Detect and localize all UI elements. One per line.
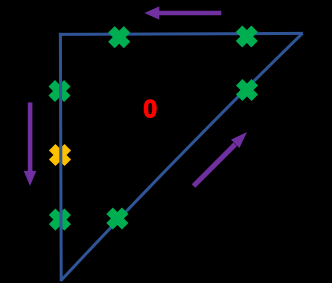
field marker X4 (hypotenuse, green) xyxy=(239,82,255,98)
svg-text:0: 0 xyxy=(143,96,157,124)
field marker X5 (left side middle, yellow) xyxy=(52,147,68,163)
arrow: top (pointing left) xyxy=(144,6,221,19)
wire: triangle top side xyxy=(59,33,303,34)
wire: triangle hypotenuse xyxy=(61,33,303,280)
field marker X6 (left side lower, green) xyxy=(52,212,68,228)
field marker X7 (bottom, green) xyxy=(110,211,126,227)
arrow: diagonal (pointing up-right) xyxy=(192,132,247,188)
wire: triangle left side xyxy=(59,33,63,281)
arrow: left (pointing down) xyxy=(24,102,37,186)
field marker X1 (top side, green) xyxy=(111,29,127,45)
field marker X2 (top right, green) xyxy=(239,29,255,45)
field marker X3 (left side upper, green) xyxy=(52,83,68,99)
